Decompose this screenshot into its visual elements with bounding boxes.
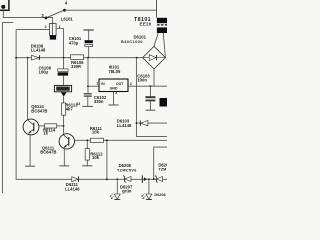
svg-text:LL4148: LL4148 xyxy=(31,48,46,53)
node xyxy=(87,85,89,87)
wire xyxy=(2,21,13,23)
node xyxy=(153,178,155,180)
resistor R6111 xyxy=(90,138,103,142)
node 3 xyxy=(45,17,48,20)
terminal dot xyxy=(1,5,5,9)
ground xyxy=(82,165,92,167)
svg-text:1: 1 xyxy=(96,82,98,86)
wire Q6114 collector up xyxy=(27,58,29,120)
svg-text:EE20: EE20 xyxy=(140,22,152,27)
wire xyxy=(86,160,88,166)
node xyxy=(136,57,138,59)
connector pin xyxy=(142,175,147,183)
svg-text:grün: grün xyxy=(122,189,132,194)
svg-text:U638: U638 xyxy=(57,86,69,91)
wire collector Q6111 xyxy=(63,126,65,135)
svg-text:BC847B: BC847B xyxy=(31,108,47,113)
wire xyxy=(63,97,65,103)
wire Q6114 emitter xyxy=(29,134,31,166)
node xyxy=(106,178,108,180)
node xyxy=(63,125,65,127)
svg-text:10k: 10k xyxy=(92,155,100,160)
svg-text:10k: 10k xyxy=(92,130,100,135)
transistor Q6111 xyxy=(59,134,74,149)
svg-text:TZM: TZM xyxy=(158,168,166,172)
capacitor C6103 xyxy=(145,86,155,110)
svg-text:78L05: 78L05 xyxy=(108,69,121,74)
capacitor C6108 xyxy=(58,58,68,86)
LED D6207 xyxy=(110,179,121,199)
svg-text:OUT: OUT xyxy=(116,82,124,86)
component blob right edge xyxy=(160,98,168,107)
resistor R6106 xyxy=(71,55,84,60)
ground xyxy=(25,165,35,167)
svg-text:100µ: 100µ xyxy=(39,70,49,75)
wire xyxy=(3,8,52,24)
svg-text:330R: 330R xyxy=(71,64,81,69)
wire R6112 column xyxy=(86,140,88,148)
wire GND stub xyxy=(113,92,115,106)
svg-text:TZMC5V6: TZMC5V6 xyxy=(117,169,137,173)
wire Q6111 emitter xyxy=(63,149,65,166)
node xyxy=(15,57,17,59)
svg-text:470µ: 470µ xyxy=(69,40,79,45)
net label U638 xyxy=(54,85,71,96)
diode D6211 xyxy=(72,176,79,182)
svg-text:LL4148: LL4148 xyxy=(117,123,132,128)
svg-text:2: 2 xyxy=(45,25,47,29)
wire pin1 xyxy=(56,29,64,58)
node xyxy=(136,122,138,124)
diode D6106 xyxy=(32,55,40,60)
svg-text:L6101: L6101 xyxy=(61,16,74,21)
switch S (arm) xyxy=(46,10,64,18)
wire xyxy=(57,125,64,127)
capacitor C6101 xyxy=(85,40,93,46)
node xyxy=(148,178,150,180)
wire IN column xyxy=(87,58,89,93)
wire mains rail xyxy=(65,9,157,11)
svg-text:1: 1 xyxy=(58,25,60,29)
zener D6205 xyxy=(123,176,131,183)
resistor R6112 xyxy=(85,149,89,161)
ground xyxy=(108,104,118,106)
svg-text:D6205: D6205 xyxy=(119,163,132,168)
svg-text:3: 3 xyxy=(130,82,132,86)
svg-text:IN: IN xyxy=(101,82,105,86)
ground xyxy=(59,165,69,167)
wire xyxy=(88,30,90,40)
svg-text:B40C1000: B40C1000 xyxy=(121,39,143,44)
zener D6206 xyxy=(155,176,163,183)
node 4 xyxy=(63,9,66,12)
node xyxy=(106,139,108,141)
wire Q6111 base xyxy=(75,139,91,141)
svg-text:D6208: D6208 xyxy=(154,193,165,197)
regulator I6101 xyxy=(99,79,128,92)
wire bridge bottom xyxy=(153,69,155,86)
bridge rectifier D6101 xyxy=(143,46,166,69)
svg-text:1k: 1k xyxy=(43,130,48,135)
wire secondary xyxy=(163,33,165,58)
svg-text:100n: 100n xyxy=(137,78,147,83)
wire xyxy=(88,47,90,58)
capacitor C6102 xyxy=(82,93,93,106)
wire xyxy=(1,22,3,193)
svg-text:2: 2 xyxy=(115,91,117,95)
node xyxy=(86,139,88,141)
diode D6103 xyxy=(140,120,148,125)
wire mid vertical xyxy=(135,58,137,137)
wire xyxy=(103,139,167,141)
transformer T8101 xyxy=(157,18,167,33)
wire xyxy=(156,0,158,18)
wire R6114 base wire xyxy=(39,125,45,127)
wire OUT xyxy=(128,85,167,87)
node xyxy=(27,57,29,59)
wire xyxy=(136,136,167,138)
node xyxy=(150,85,152,87)
resistor R6113 xyxy=(62,103,66,115)
inductor L6101 xyxy=(49,24,56,40)
resistor R6114 xyxy=(45,124,57,128)
svg-text:BC847B: BC847B xyxy=(40,149,56,154)
connector box top-left xyxy=(0,0,9,10)
transistor Q6114 xyxy=(23,119,39,135)
svg-text:LL4148: LL4148 xyxy=(65,186,80,191)
capacitor C6101 top bar xyxy=(84,29,94,31)
wire left drop to bottom rail xyxy=(16,30,167,180)
svg-text:GND: GND xyxy=(110,86,118,90)
svg-text:4k7: 4k7 xyxy=(66,106,74,111)
wire main horizontal line xyxy=(16,57,143,59)
wire stub right xyxy=(154,147,167,179)
wire xyxy=(16,29,49,31)
node xyxy=(63,57,65,59)
node xyxy=(87,57,89,59)
wire xyxy=(63,115,65,126)
wire IN stub xyxy=(88,85,99,87)
LED D6208 xyxy=(141,179,152,199)
wire secondary xyxy=(154,33,158,46)
wire D6103 line xyxy=(136,122,167,124)
node xyxy=(116,178,118,180)
wire xyxy=(106,140,108,179)
svg-text:330n: 330n xyxy=(94,99,104,104)
